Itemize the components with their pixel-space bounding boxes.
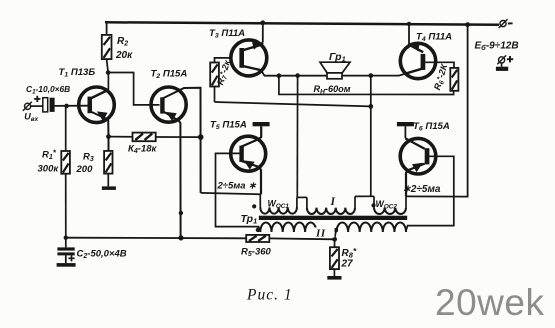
- svg-text:2÷5ма ∗: 2÷5ма ∗: [217, 180, 258, 191]
- svg-text:C2-50,0×4В: C2-50,0×4В: [77, 249, 127, 261]
- svg-text:R1*: R1*: [42, 149, 57, 162]
- svg-text:Uвх: Uвх: [24, 112, 38, 124]
- svg-text:R8*: R8*: [342, 246, 357, 259]
- svg-text:II: II: [315, 228, 326, 240]
- svg-text:Рис. 1: Рис. 1: [246, 287, 293, 304]
- svg-text:Т3 П11А: Т3 П11А: [209, 28, 245, 40]
- svg-text:300к: 300к: [38, 164, 60, 175]
- svg-text:200: 200: [76, 164, 94, 175]
- svg-text:Т4 П11А: Т4 П11А: [416, 32, 452, 44]
- svg-text:R5-360: R5-360: [241, 246, 272, 257]
- svg-text:I: I: [330, 196, 336, 208]
- svg-text:WОС1: WОС1: [268, 198, 290, 210]
- svg-text:20wek: 20wek: [435, 282, 544, 323]
- svg-text:∗2÷5ма: ∗2÷5ма: [403, 184, 441, 195]
- svg-text:R3: R3: [83, 152, 94, 164]
- svg-text:Тр1: Тр1: [241, 213, 258, 226]
- svg-text:27: 27: [341, 259, 354, 270]
- svg-text:RН-60ом: RН-60ом: [314, 84, 351, 96]
- svg-text:Т1 П13Б: Т1 П13Б: [59, 67, 96, 79]
- svg-text:Т2 П15А: Т2 П15А: [151, 69, 188, 81]
- svg-text:Т5 П15А: Т5 П15А: [210, 119, 247, 131]
- svg-text:20к: 20к: [115, 50, 133, 61]
- svg-text:Гр1: Гр1: [329, 51, 346, 64]
- svg-text:C1-10,0×6В: C1-10,0×6В: [26, 84, 70, 96]
- svg-text:WОС2: WОС2: [376, 199, 398, 211]
- svg-text:R2: R2: [117, 36, 128, 48]
- svg-text:К4-18к: К4-18к: [128, 143, 157, 155]
- svg-text:Еб-9÷12В: Еб-9÷12В: [475, 41, 519, 53]
- svg-text:Т6 П15А: Т6 П15А: [413, 121, 450, 133]
